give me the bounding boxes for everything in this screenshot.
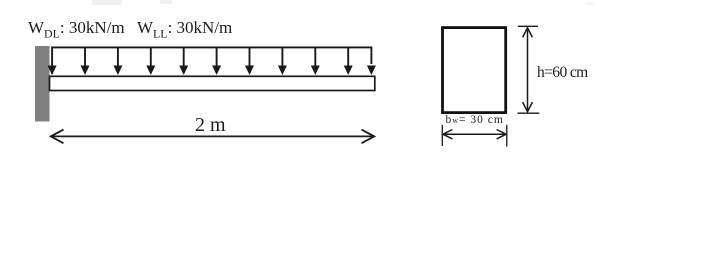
load arrow 6	[212, 47, 221, 75]
label 2 m	[195, 114, 226, 137]
load arrow 4	[146, 47, 155, 75]
label W_LL: 30kN/m	[137, 18, 232, 41]
span dimension line 2 m	[51, 130, 375, 144]
label bw= 30 cm	[446, 114, 504, 126]
bw dimension horizontal arrow	[443, 130, 506, 139]
load arrow 2	[81, 47, 90, 75]
load arrow 1	[48, 66, 57, 76]
beam	[50, 76, 375, 90]
load arrow 11 (end)	[367, 66, 376, 76]
faint cropped text remnant top	[92, 0, 594, 5]
load arrow 5	[179, 47, 188, 75]
h dimension extension ticks	[518, 26, 540, 113]
label h=60 cm	[537, 64, 588, 82]
h dimension vertical arrow	[523, 28, 533, 112]
load arrow 8	[278, 47, 287, 75]
bw dimension extension ticks	[442, 125, 507, 147]
cross-section rectangle	[443, 28, 506, 113]
load arrow 3	[113, 47, 122, 75]
load arrow 9	[311, 47, 320, 75]
load arrow 10	[344, 47, 353, 75]
label W_DL: 30kN/m	[28, 18, 125, 41]
load arrow 7	[245, 47, 254, 75]
wall support (fixed end)	[35, 46, 50, 122]
distributed load top line	[52, 47, 371, 74]
